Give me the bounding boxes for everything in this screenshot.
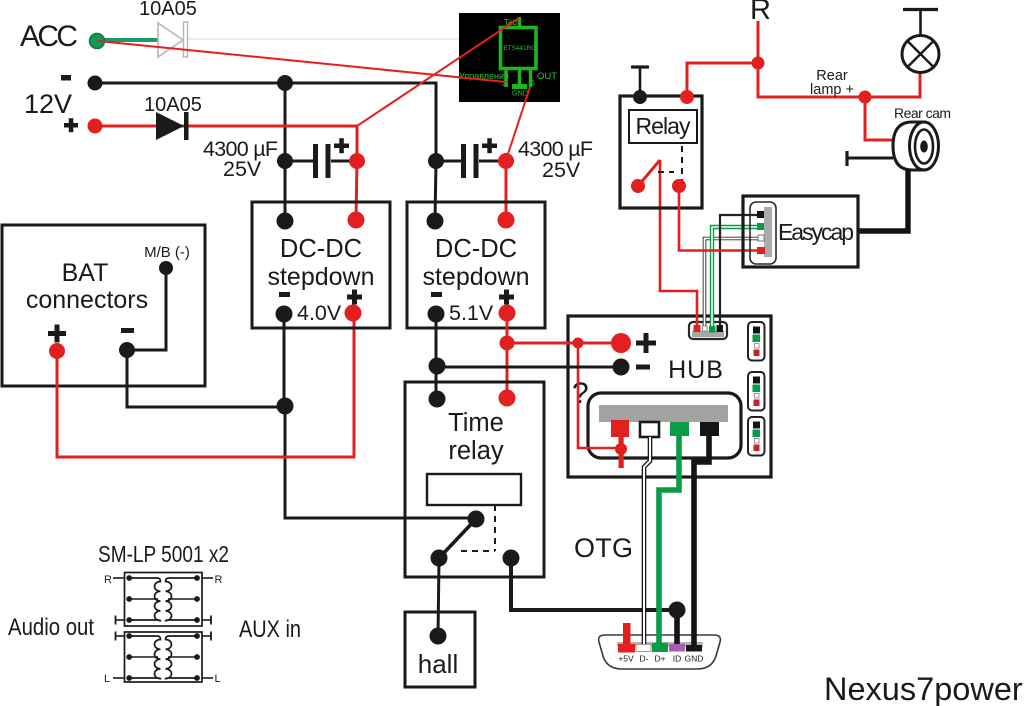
- usb plug green (D+): [670, 422, 689, 436]
- label Rear cam: [894, 105, 951, 121]
- DC-DC stepdown converter 1 box: [252, 202, 390, 328]
- wire white easycap to hub uplink: [705, 239, 759, 329]
- hall sensor box: [405, 612, 475, 687]
- pin relay switch right: [672, 179, 686, 193]
- pin relay top red: [680, 90, 694, 104]
- node HUB minus: [613, 359, 630, 376]
- node 12V plus terminal: [88, 119, 103, 134]
- wire DC-DC2 minus down and HUB minus: [436, 316, 621, 399]
- svg-text:Easycap: Easycap: [778, 219, 854, 245]
- node M/B terminal: [159, 261, 173, 275]
- pin time relay NC right: [503, 550, 520, 567]
- svg-text:stepdown: stepdown: [267, 263, 374, 291]
- wire minus overdraw at crossing: [570, 366, 590, 369]
- svg-text:12V: 12V: [24, 89, 72, 119]
- wire C2 plus to DC-DC2 input: [505, 161, 508, 220]
- junction questioned tap: [573, 338, 584, 349]
- usb plug white (D-): [640, 422, 659, 437]
- wire C1 plus to DC-DC1 input: [356, 161, 357, 220]
- wire GND black to OTG: [694, 436, 709, 646]
- svg-text:R: R: [215, 574, 223, 586]
- wire DC-DC1 minus out to ground junction: [283, 314, 286, 407]
- switch blade relay (red): [638, 160, 660, 186]
- svg-text:OTG: OTG: [574, 533, 633, 563]
- pin DC-DC2 input minus: [427, 213, 444, 230]
- easycap contacts: [757, 211, 765, 254]
- svg-text:10A05: 10A05: [139, 0, 197, 20]
- wire green easycap to hub uplink: [712, 227, 758, 328]
- pin +5V red stub: [623, 623, 631, 646]
- svg-text:Rear cam: Rear cam: [894, 105, 951, 121]
- transformer T1 windings: [126, 575, 200, 623]
- label Nexus7power: [824, 671, 1023, 706]
- antenna symbol at camera: [847, 151, 893, 166]
- svg-text:lamp +: lamp +: [810, 82, 854, 98]
- Relay box: [620, 96, 702, 208]
- svg-text:relay: relay: [448, 437, 504, 465]
- pin DC-DC2 output plus: [499, 305, 516, 322]
- pin relay switch left: [631, 179, 645, 193]
- junction DC-DC2 minus branch: [429, 358, 446, 375]
- svg-text:DC-DC: DC-DC: [435, 235, 517, 263]
- svg-text:10A05: 10A05: [144, 94, 202, 116]
- node ACC: [20, 20, 78, 53]
- callout line U1 OUT pin to C2 plus: [506, 87, 530, 160]
- pin DC-DC1 input plus: [348, 212, 365, 229]
- wire time relay to hall: [438, 560, 439, 636]
- svg-text:ETS441RG: ETS441RG: [504, 45, 537, 52]
- svg-text:R: R: [104, 574, 112, 586]
- svg-text:SM-LP 5001 x2: SM-LP 5001 x2: [98, 541, 229, 567]
- Easycap box: [743, 196, 858, 267]
- svg-text:ACC: ACC: [20, 20, 78, 53]
- junction ground node: [277, 398, 294, 415]
- usb port icon 1: [748, 322, 765, 361]
- svg-text:ID: ID: [673, 654, 682, 664]
- wire ground junction to time relay common: [285, 407, 476, 518]
- usb plug black (GND): [700, 422, 719, 436]
- lamp (rear lamp): [902, 10, 939, 73]
- junction DC-DC2 plus branch: [500, 336, 515, 351]
- wire time relay NC to OTG ID: [511, 560, 677, 610]
- usb port icon 2: [748, 372, 765, 411]
- svg-text:OUT: OUT: [537, 71, 557, 82]
- capacitor C2 4300uF 25V: [436, 137, 593, 182]
- pin DC-DC2 input plus: [498, 212, 515, 229]
- svg-text:25V: 25V: [223, 157, 262, 181]
- node ACC terminal dot: [90, 34, 105, 49]
- wire ID black to OTG: [674, 610, 680, 644]
- transformer T2 windings: [126, 633, 200, 681]
- rear camera: [893, 122, 939, 170]
- callout line 12V plus to U1 tab pin: [357, 18, 519, 126]
- svg-text:GND: GND: [512, 89, 528, 98]
- svg-text:?: ?: [572, 377, 589, 410]
- capacitor C1 4300uF 25V: [203, 137, 357, 181]
- label R (reverse signal): [750, 0, 771, 26]
- junction C2 plus: [498, 153, 514, 169]
- label AUX in: [239, 616, 301, 643]
- pin relay top black: [633, 90, 647, 104]
- switch blade time relay: [440, 519, 476, 557]
- svg-text:Nexus7power: Nexus7power: [824, 671, 1023, 706]
- junction C1 plus: [349, 153, 365, 169]
- node HUB plus: [611, 333, 631, 353]
- wire R net (red): [687, 21, 920, 140]
- svg-text:5: 5: [531, 80, 535, 87]
- wire 12V plus: [95, 126, 357, 161]
- uplink plug contacts: [694, 325, 724, 333]
- diode D2 10A05 (12V plus): [144, 94, 202, 140]
- wire faint after diode: [188, 38, 459, 40]
- svg-text:Audio out: Audio out: [8, 614, 94, 641]
- pin DC-DC1 output minus: [276, 306, 293, 323]
- svg-text:GND: GND: [685, 654, 704, 664]
- label Audio out: [8, 614, 94, 641]
- svg-text:BAT: BAT: [62, 259, 109, 287]
- HUB uplink plug on top edge: [689, 322, 727, 339]
- pin time relay top red: [499, 390, 516, 407]
- svg-text:+5V: +5V: [618, 654, 634, 664]
- BAT connectors box: [2, 225, 205, 386]
- svg-text:HUB: HUB: [668, 356, 724, 384]
- node BAT plus terminal: [49, 343, 65, 359]
- svg-text:stepdown: stepdown: [422, 263, 529, 291]
- junction red at hub port: [615, 443, 627, 455]
- pin hall terminal: [430, 628, 447, 645]
- antenna symbol on relay: [631, 67, 649, 92]
- node BAT minus terminal: [119, 342, 135, 358]
- wire DC-DC2 plus to HUB plus (red): [507, 315, 621, 398]
- callout line ACC to U1 control pin: [98, 41, 506, 82]
- wire ACC green: [100, 38, 159, 42]
- wire C1 minus to DC-DC1 input: [284, 161, 287, 221]
- wire camera video to easycap (thick): [858, 170, 908, 231]
- transformer T1 external pins: [104, 574, 223, 625]
- transformer T1 box: [125, 573, 203, 627]
- pin time relay top black: [429, 391, 446, 408]
- junction C1 minus: [277, 153, 293, 169]
- label SM-LP 5001 x2: [98, 541, 229, 567]
- svg-text:DC-DC: DC-DC: [280, 235, 362, 263]
- junction R net cam drop: [859, 91, 872, 104]
- transformer T2 box: [125, 632, 203, 682]
- wire relay right pin to easycap power: [679, 188, 757, 251]
- node 12V labels: [24, 75, 78, 132]
- OTG pads and labels: [618, 643, 703, 664]
- junction 12V minus / C1: [277, 75, 293, 91]
- svg-text:M/B (-): M/B (-): [144, 244, 190, 261]
- svg-text:Relay: Relay: [636, 113, 692, 139]
- pin DC-DC2 output minus: [428, 306, 445, 323]
- label OTG: [574, 533, 633, 563]
- diode D1 10A05 (ACC, outline): [139, 0, 197, 57]
- HUB USB strip: [588, 393, 741, 458]
- svg-text:5.1V: 5.1V: [449, 301, 494, 325]
- pin time relay NO left: [431, 550, 448, 567]
- label question mark: [572, 377, 589, 410]
- pin DC-DC1 output plus: [345, 305, 362, 322]
- Time relay box: [405, 382, 544, 577]
- svg-text:25V: 25V: [542, 158, 581, 182]
- wire BAT minus to ground junction: [127, 352, 285, 407]
- svg-text:L: L: [215, 673, 221, 685]
- usb plug red (power): [611, 420, 629, 468]
- wire 12V minus bus: [95, 83, 436, 161]
- svg-text:AUX in: AUX in: [239, 616, 301, 643]
- wire red relay to hub uplink: [660, 160, 697, 327]
- svg-text:D+: D+: [654, 654, 665, 664]
- wire black easycap to hub uplink: [720, 215, 758, 328]
- svg-text:R: R: [750, 0, 771, 26]
- wire C2 minus to DC-DC2 input: [435, 161, 436, 221]
- transformer T2 external pins: [104, 632, 221, 686]
- svg-text:4.0V: 4.0V: [297, 301, 342, 325]
- junction R net top: [752, 57, 765, 70]
- svg-text:D-: D-: [640, 654, 649, 664]
- svg-text:Time: Time: [448, 409, 504, 437]
- redraw hub feed wires over box edge: [545, 343, 621, 367]
- DC-DC stepdown converter 2 box: [407, 202, 545, 328]
- OTG micro-usb connector shell: [599, 635, 721, 669]
- wire M/B to BAT minus: [130, 270, 166, 350]
- junction C2 minus: [428, 153, 444, 169]
- wire D+ green to OTG: [659, 436, 679, 646]
- svg-text:hall: hall: [418, 649, 458, 679]
- svg-text:connectors: connectors: [26, 286, 148, 314]
- pin time relay common: [468, 511, 485, 528]
- wire BAT plus loop (red): [57, 313, 354, 457]
- svg-text:L: L: [104, 673, 110, 685]
- pin DC-DC1 input minus: [277, 213, 294, 230]
- HUB box: [568, 316, 771, 477]
- usb port icon 3: [748, 417, 765, 456]
- wire D- white to OTG: [644, 437, 650, 644]
- node 12V minus terminal: [88, 76, 103, 91]
- junction ID node: [669, 602, 686, 619]
- wire questioned red tap to hub port: [578, 343, 621, 448]
- label Rear lamp +: [810, 68, 854, 98]
- photo inset BTS441RG high-side switch U1: [459, 13, 560, 102]
